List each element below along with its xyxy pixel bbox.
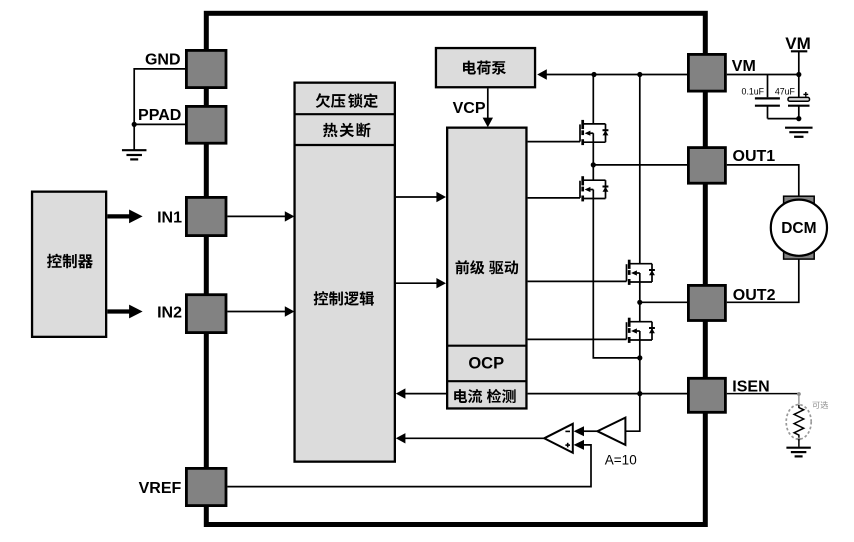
block: charge pump 电荷泵 bbox=[436, 48, 535, 87]
buffer amplifier A=10 bbox=[597, 418, 625, 445]
wire Q3 source to OUT2 node bbox=[639, 282, 641, 302]
wire current sense to control logic bbox=[405, 393, 446, 395]
junction VM/high-side 2 bbox=[637, 72, 642, 77]
pin VM bbox=[688, 54, 725, 91]
svg-text:IN1: IN1 bbox=[157, 209, 182, 226]
pin PPAD bbox=[186, 106, 226, 143]
svg-text:PPAD: PPAD bbox=[138, 107, 181, 124]
wire Q1 drain bbox=[592, 75, 594, 124]
pin OUT1 bbox=[688, 148, 725, 184]
junction OUT2 bbox=[637, 300, 642, 305]
pin IN1 bbox=[186, 197, 226, 235]
block label: current sense 电流检测 bbox=[454, 389, 515, 403]
gate lead Q3 bbox=[528, 280, 627, 282]
optional sense resistor (dashed) bbox=[786, 405, 811, 440]
block label: thermal shutdown 热关断 bbox=[323, 123, 370, 138]
wire OUT1 node to OUT1 pin bbox=[593, 164, 687, 166]
wire sense node to ISEN wire bbox=[639, 358, 641, 394]
junction OUT1 bbox=[591, 162, 596, 167]
svg-text:GND: GND bbox=[145, 52, 181, 69]
wire VCP charge pump to pre-driver bbox=[487, 88, 489, 118]
wire GND pin to ground bbox=[134, 69, 185, 150]
wire controller to IN1 (thick) bbox=[107, 214, 130, 218]
junction caps bottom bbox=[768, 118, 799, 120]
motor terminal top bbox=[784, 196, 815, 204]
gate lead Q1 bbox=[528, 141, 580, 143]
label 可选 (optional) bbox=[812, 401, 828, 409]
wire IN2 to control logic bbox=[227, 311, 285, 313]
block label: UVLO 欠压锁定 bbox=[316, 93, 378, 108]
pin VREF bbox=[186, 468, 226, 505]
divider under TSD section bbox=[295, 144, 395, 146]
motor terminal bottom bbox=[784, 252, 815, 260]
svg-text:DCM: DCM bbox=[781, 220, 816, 237]
comparator/error amp bbox=[544, 424, 573, 453]
capacitor C2 47uF electrolytic bbox=[798, 75, 800, 98]
wire Q4 source bbox=[639, 340, 641, 358]
wire Q3 drain bbox=[639, 75, 641, 264]
svg-text:47uF: 47uF bbox=[775, 86, 796, 96]
wire VM pin to decoupling caps bbox=[727, 74, 799, 76]
plus mark bbox=[803, 93, 808, 95]
wire Q1 source to OUT1 node bbox=[592, 142, 594, 165]
divider above OCP section bbox=[447, 345, 526, 347]
svg-text:VM: VM bbox=[785, 34, 811, 53]
junction GND/PPAD bbox=[132, 122, 137, 127]
motor DCM bbox=[771, 200, 827, 256]
transistor Q4 (N-MOSFET with body diode) bbox=[627, 318, 655, 343]
svg-text:A=10: A=10 bbox=[605, 453, 637, 468]
divider under UVLO section bbox=[295, 113, 395, 115]
wire controller to IN2 (thick) bbox=[107, 309, 130, 313]
wire control logic to pre-driver (lower) bbox=[396, 282, 437, 284]
svg-text:IN2: IN2 bbox=[157, 305, 182, 322]
svg-text:OUT2: OUT2 bbox=[733, 287, 776, 304]
svg-text:VM: VM bbox=[732, 58, 756, 75]
wire buffer output to comparator - input bbox=[584, 430, 598, 432]
wire motor to OUT2 pin bbox=[727, 260, 799, 303]
plus sign bbox=[565, 444, 570, 446]
ground symbol (sense resistor) bbox=[786, 447, 810, 449]
wire current-sense block to ISEN pin bbox=[528, 393, 687, 395]
pin OUT2 bbox=[688, 285, 725, 320]
wire ISEN pin to optional resistor bbox=[727, 393, 799, 395]
wire OUT2 node to OUT2 pin bbox=[640, 301, 687, 303]
pin ISEN bbox=[688, 378, 725, 412]
wire tap down to A=10 buffer bbox=[625, 394, 639, 432]
node (gray) bbox=[797, 392, 801, 396]
transistor Q3 (N-MOSFET with body diode) bbox=[627, 260, 655, 285]
IC chip outline U1 bbox=[206, 13, 705, 524]
wire amp output to control logic bbox=[405, 437, 545, 439]
wire control logic to pre-driver (upper) bbox=[396, 196, 437, 198]
wire Q2 drain bbox=[592, 165, 594, 180]
svg-text:VREF: VREF bbox=[139, 480, 182, 497]
ground symbol (VM caps) bbox=[785, 127, 813, 129]
block label: pre-driver 前级驱动 bbox=[455, 260, 518, 274]
pin IN2 bbox=[186, 295, 226, 333]
divider above current-sense section bbox=[447, 380, 526, 382]
wire VM pin to charge pump bbox=[547, 74, 688, 76]
svg-text:0.1uF: 0.1uF bbox=[742, 86, 765, 96]
block: external controller 控制器 bbox=[32, 192, 106, 337]
block label: control logic 控制逻辑 bbox=[314, 291, 374, 306]
wire VREF to + input bbox=[227, 445, 591, 487]
gate lead Q4 bbox=[528, 338, 627, 340]
block: right column (pre-driver/OCP/current sense) outline bbox=[447, 128, 526, 409]
pin GND bbox=[186, 50, 226, 87]
svg-text:OCP: OCP bbox=[468, 354, 504, 372]
block: left column (UVLO/TSD/control logic) outline bbox=[295, 83, 395, 462]
junction source/sense bbox=[637, 355, 642, 360]
transistor Q2 (N-MOSFET with body diode) bbox=[580, 176, 608, 201]
capacitor C1 0.1uF bbox=[767, 75, 769, 98]
junction VM/high-side 1 bbox=[591, 72, 596, 77]
minus sign bbox=[565, 430, 570, 432]
wire PPAD pin to ground node bbox=[134, 123, 185, 125]
svg-text:VCP: VCP bbox=[453, 100, 486, 117]
junction ISEN/amp tap bbox=[637, 391, 642, 396]
wire IN1 to control logic bbox=[227, 215, 285, 217]
wire Q4 drain bbox=[639, 302, 641, 321]
ground symbol (GND/PPAD) bbox=[122, 149, 147, 151]
transistor Q1 (N-MOSFET with body diode) bbox=[580, 120, 608, 145]
gate lead Q2 bbox=[528, 197, 580, 199]
wire Q2 source down bbox=[593, 199, 640, 358]
svg-text:OUT1: OUT1 bbox=[733, 148, 776, 165]
wire OUT1 pin to motor bbox=[727, 165, 799, 196]
